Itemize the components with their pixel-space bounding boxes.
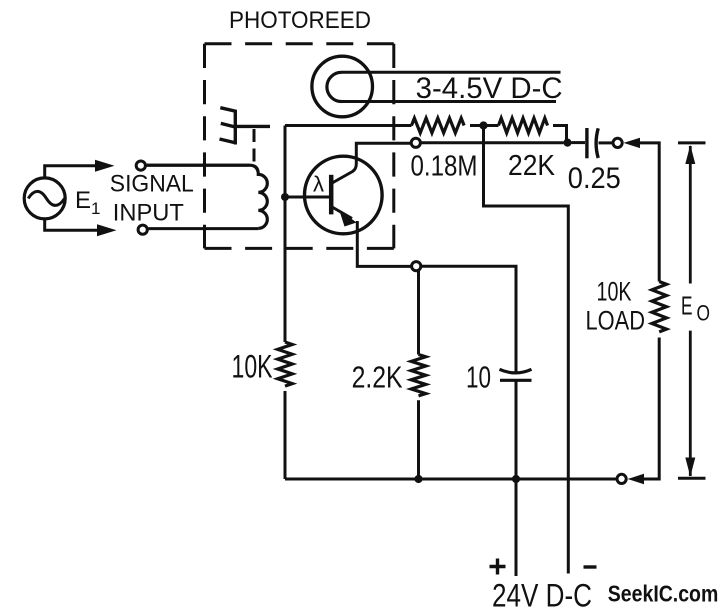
left vertical wire (base rail) [284, 126, 287, 343]
svg-text:LOAD: LOAD [586, 305, 646, 335]
wire 0.18M to 22K with node [470, 124, 499, 127]
svg-text:3-4.5V D-C: 3-4.5V D-C [416, 72, 563, 105]
lamp top lead to 3-4.5V [342, 71, 561, 74]
wire cap 10 to rail and +24V lead [515, 380, 518, 576]
sine wave inside source [28, 191, 64, 205]
Eo dimension line upper [689, 146, 692, 284]
base wire from node [285, 196, 331, 199]
svg-text:10K: 10K [597, 277, 632, 307]
arrowhead to lower output terminal [628, 474, 645, 484]
Eo arrow up [685, 145, 695, 164]
wire from load top [637, 143, 659, 282]
plus sign [490, 559, 506, 575]
resistor 0.18M [412, 118, 465, 133]
svg-text:INPUT: INPUT [113, 199, 184, 226]
emitter lead [331, 207, 352, 219]
svg-text:10: 10 [466, 360, 491, 395]
svg-text:SeekIC.com: SeekIC.com [608, 581, 719, 607]
wire cap to output terminal [599, 141, 614, 144]
collector lead [331, 143, 411, 183]
svg-text:10K: 10K [232, 348, 273, 384]
AC source E1 [24, 178, 65, 219]
svg-text:E: E [681, 290, 693, 320]
phototransistor Q1 [305, 156, 383, 234]
resistor 22K [499, 118, 548, 133]
wire from source bottom to lower input arrow [45, 219, 98, 230]
resistor 10K LOAD [652, 282, 667, 332]
PHOTOREED dashed box [205, 44, 394, 249]
arrowhead upper input [95, 160, 115, 172]
node junction resistors [479, 121, 487, 129]
svg-text:PHOTOREED: PHOTOREED [229, 7, 371, 34]
svg-text:0.25: 0.25 [568, 162, 621, 195]
lamp bottom lead under 3-4.5V [342, 100, 557, 103]
output terminal upper [613, 138, 622, 147]
resistor 10K (left) [278, 342, 293, 386]
emitter arrowhead [339, 210, 357, 227]
terminal upper input [136, 161, 145, 170]
svg-text:22K: 22K [508, 150, 556, 182]
node capacitor junction [563, 139, 571, 147]
node base junction [281, 193, 289, 201]
svg-text:24V D-C: 24V D-C [492, 577, 592, 612]
arrowhead lower input [97, 224, 117, 236]
emitter wire down and right [357, 221, 411, 266]
bottom rail [285, 478, 617, 481]
svg-text:SIGNAL: SIGNAL [110, 171, 194, 198]
capacitor C2 10 top plate [500, 369, 532, 373]
svg-text:λ: λ [313, 171, 324, 196]
top wire from left rail to 0.18M [285, 124, 412, 127]
svg-text:E1: E1 [75, 187, 100, 218]
wire load bottom to rail [637, 338, 659, 480]
reed armature symbol [220, 108, 271, 145]
Eo dimension top bar [678, 141, 706, 144]
relay coil [147, 165, 268, 228]
resistor 2.2K drop wire [417, 271, 420, 355]
collector line to cap junction [421, 141, 564, 144]
collector terminal [411, 138, 420, 147]
node cap10 rail [512, 475, 520, 483]
wire lower terminal to coil [149, 227, 259, 230]
lamp filament arc [327, 72, 342, 101]
dashed mechanical linkage [253, 129, 256, 163]
svg-text:O: O [697, 300, 711, 325]
junction drop from resistor node [484, 126, 569, 574]
minus lead tick [584, 565, 597, 568]
capacitor C1 0.25 left plate [585, 128, 588, 158]
wire upper terminal to coil [147, 164, 250, 167]
wire 22K right end down to collector line [553, 126, 567, 143]
Eo dimension line lower [689, 331, 692, 476]
wire from source top to upper input arrow [45, 166, 96, 178]
emitter line to cap 10 branch [421, 266, 516, 371]
wire 2.2K to rail [417, 400, 420, 479]
emitter terminal [412, 262, 421, 271]
lamp L1 [312, 56, 373, 117]
resistor 2.2K [411, 355, 426, 396]
wire junction to capacitor 0.25 [572, 141, 586, 144]
output terminal lower [617, 474, 626, 483]
terminal lower input [138, 225, 147, 234]
wire 10K to bottom rail [284, 391, 287, 479]
base bar [329, 175, 334, 215]
svg-text:2.2K: 2.2K [352, 360, 403, 395]
capacitor C1 0.25 right plate [596, 128, 598, 158]
node 2.2K rail [414, 475, 422, 483]
Eo dimension bottom bar [678, 477, 706, 480]
svg-text:0.18M: 0.18M [411, 150, 478, 182]
Eo arrow down [685, 458, 695, 477]
arrowhead to upper output terminal [624, 138, 641, 148]
capacitor C2 10 bottom plate [500, 379, 532, 382]
